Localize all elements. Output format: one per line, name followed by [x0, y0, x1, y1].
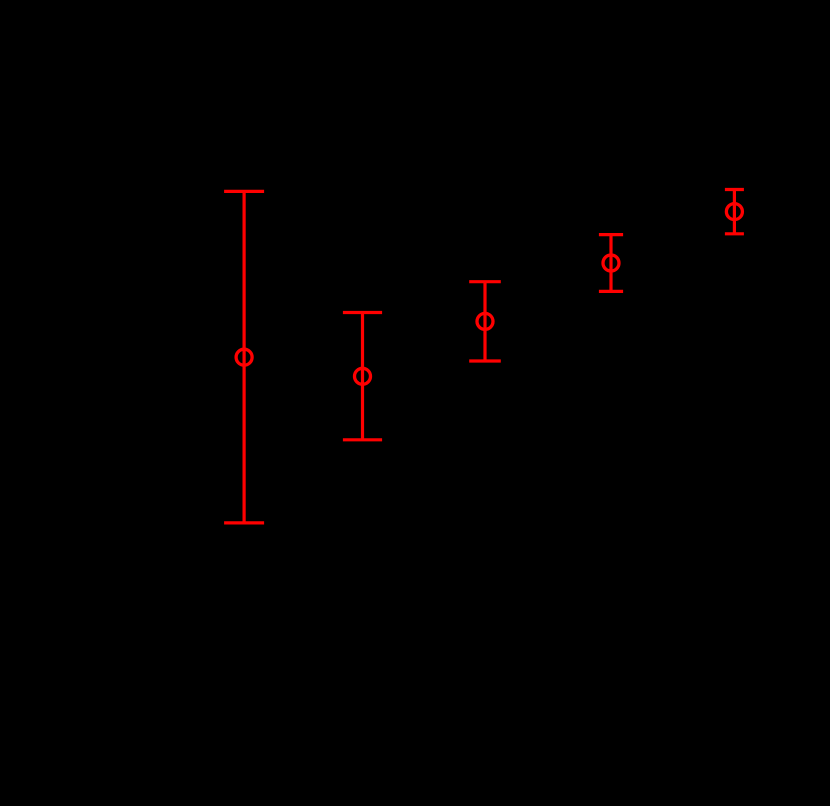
error bar 1: [224, 191, 264, 523]
point 1 circle: [236, 349, 252, 365]
point 5 circle: [726, 204, 742, 220]
point 3 circle: [477, 313, 493, 329]
point 2 circle: [355, 368, 371, 384]
error bar 4: [599, 235, 623, 292]
error bar 3: [469, 282, 501, 361]
error bar 2: [343, 313, 382, 440]
point 4 circle: [603, 255, 619, 271]
error bar 5: [725, 190, 744, 234]
